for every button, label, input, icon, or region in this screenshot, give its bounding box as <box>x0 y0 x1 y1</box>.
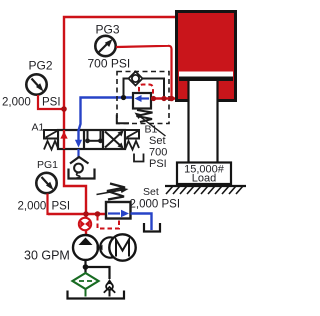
spring: CB valve adjustable spring <box>135 110 166 136</box>
spring: DCV right return spring <box>125 141 139 150</box>
solenoid A1 <box>44 130 58 139</box>
load: 15,000# load box <box>177 163 231 185</box>
svg-text:PSI: PSI <box>42 97 61 109</box>
enclosure: counterbalance valve dashed box <box>117 72 169 124</box>
node: junction pump line / PG1 <box>83 211 89 217</box>
wire: pump pressure line jog below DCV (P-port) <box>64 148 86 214</box>
node: PG2 tee on cap line <box>61 106 67 112</box>
label B1 <box>145 124 158 136</box>
value label 2,000 PSI (PG2) <box>2 97 61 109</box>
wire: PG1 gauge stem <box>48 194 51 215</box>
value label Set 700 PSI <box>149 135 167 170</box>
gauge PG1 <box>36 173 56 193</box>
svg-text:Load: Load <box>192 173 216 185</box>
svg-text:Set: Set <box>143 186 159 198</box>
wire: blue stub from DCV T port to tank breather <box>77 149 79 158</box>
counterbalance valve CB body <box>133 93 151 109</box>
spring: relief valve adjustable spring <box>97 184 129 200</box>
gauge PG3 <box>95 36 115 56</box>
check valve: CB bypass check <box>124 72 165 97</box>
pilot line: CB valve remote pilot (dashed red) <box>139 85 153 97</box>
svg-text:2,000 PSI: 2,000 PSI <box>130 199 181 211</box>
svg-text:PSI: PSI <box>149 158 167 170</box>
svg-text:Set: Set <box>149 135 166 147</box>
wire: main pressure manifold line at pump outlet <box>48 214 106 238</box>
wire: blue line DCV B port to counterbalance valve <box>79 98 134 131</box>
flow indicator on pump outlet <box>79 218 91 230</box>
svg-text:700: 700 <box>149 147 167 159</box>
wire: PG3 stem to rod-end line <box>116 46 172 99</box>
wire: pump suction line <box>84 260 86 274</box>
svg-text:2,000: 2,000 <box>18 201 47 213</box>
tank breather below DCV with strainer <box>69 157 95 179</box>
svg-text:B1: B1 <box>145 124 158 136</box>
check valve: filter bypass into tank <box>104 279 115 297</box>
svg-text:30 GPM: 30 GPM <box>24 249 70 263</box>
svg-text:PG3: PG3 <box>96 23 120 37</box>
spring: DCV left return spring <box>44 141 58 150</box>
pump P1 <box>73 235 98 260</box>
svg-text:PSI: PSI <box>52 201 71 213</box>
solenoid B1 <box>125 130 139 139</box>
svg-text:2,000: 2,000 <box>2 97 31 109</box>
value label Set 2,000 PSI <box>130 186 181 211</box>
wire: PG2 gauge stem <box>38 95 64 109</box>
label PG2 <box>29 59 53 73</box>
svg-text:A1: A1 <box>32 122 45 134</box>
DCV center position: A-B connected, dots <box>85 130 103 143</box>
node: pilot tap <box>151 96 156 101</box>
ground hatching under load <box>165 186 246 194</box>
directional valve DCV body <box>58 130 125 149</box>
cylinder: vertical cylinder with load <box>177 12 236 101</box>
label A1 <box>32 122 45 134</box>
node: bypass rejoin <box>161 96 166 101</box>
DCV right position: crossed arrows <box>105 131 124 149</box>
gauge PG2 <box>26 74 46 94</box>
wire: relief valve outlet to tank (blue) <box>131 214 152 231</box>
node: PG3 / rod-end tee <box>169 96 175 102</box>
tank: main reservoir <box>68 291 125 299</box>
node: suction tee <box>83 264 89 270</box>
label PG1 <box>37 159 58 171</box>
wire: B-to-T blue flow arrow through DCV left box <box>75 130 82 148</box>
coupling: pump-motor shaft <box>97 237 116 257</box>
wire: bypass check branch <box>86 267 110 279</box>
value label 2,000 PSI (PG1) <box>18 201 71 213</box>
wire: P-to-A red flow arrow through DCV left box <box>60 130 67 149</box>
label 15,000# Load <box>184 164 225 185</box>
svg-text:PG1: PG1 <box>37 159 58 171</box>
svg-text:700 PSI: 700 PSI <box>88 57 131 71</box>
svg-text:PG2: PG2 <box>29 59 53 73</box>
tank: relief valve return tank <box>144 223 160 232</box>
wire: red rod-end line from CB valve to cylinder port <box>151 97 177 99</box>
wire: cap-end pressure line from DCV A-port up and over to cylinder cap port <box>64 17 176 130</box>
node: junction pilot tap to relief valve <box>95 211 101 217</box>
node: bypass check tee on blue line <box>121 95 126 100</box>
cylinder rod <box>189 81 218 164</box>
value label 30 GPM <box>24 249 70 263</box>
pilot line: relief valve pilot (dashed red) <box>98 216 120 229</box>
relief valve RV body <box>106 202 131 219</box>
tank: DCV drain tank below B1 end <box>134 154 144 162</box>
value label 700 PSI (PG3) <box>88 57 131 71</box>
label PG3 <box>96 23 120 37</box>
filter: suction strainer <box>73 273 99 297</box>
motor M electric <box>109 234 135 260</box>
